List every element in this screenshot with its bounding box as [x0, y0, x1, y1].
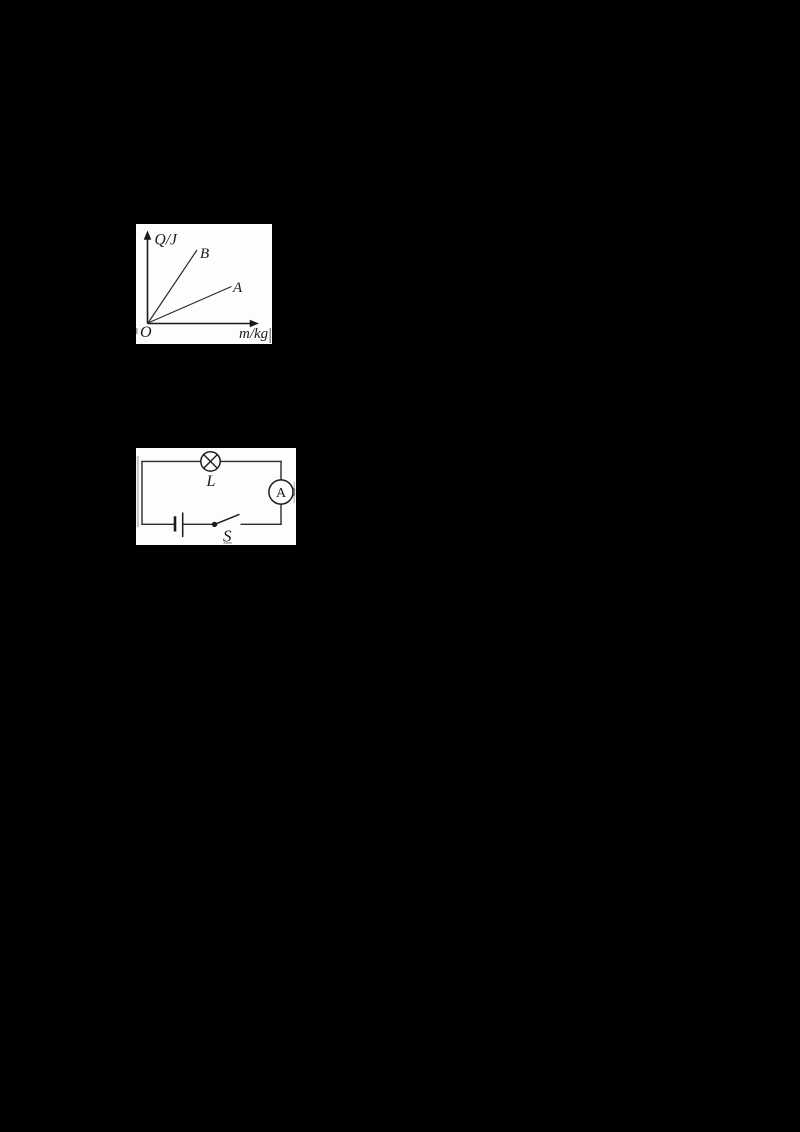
svg-text:m/kg: m/kg — [239, 326, 269, 342]
switch S pivot dot — [212, 522, 217, 527]
battery: negative plate (short thick) — [174, 516, 177, 531]
ammeter A — [269, 480, 293, 504]
grey strip artifact at left edge — [137, 456, 139, 528]
y-axis with arrow — [144, 231, 152, 324]
line B — [148, 250, 197, 323]
grey cursor bar right of m/kg — [270, 328, 272, 343]
svg-text:S: S — [223, 527, 232, 546]
wire: top right segment — [220, 460, 282, 462]
battery: positive plate (long thin) — [182, 513, 184, 538]
circuit panel — [136, 448, 296, 545]
svg-text:L: L — [206, 473, 216, 490]
svg-text:O: O — [140, 324, 152, 341]
wire: switch to right — [241, 523, 282, 525]
artifact: dark blob right of ammeter — [292, 488, 295, 496]
svg-text:Q/J: Q/J — [155, 232, 179, 249]
svg-text:A: A — [232, 280, 243, 296]
wire: bottom left segment — [141, 523, 174, 525]
wire: left vertical — [141, 461, 143, 524]
lamp L (circle with X) — [201, 452, 220, 471]
line A — [148, 287, 232, 324]
svg-text:B: B — [200, 246, 209, 262]
wire: right vertical lower — [280, 504, 282, 525]
grey underline under S — [224, 542, 233, 543]
svg-text:A: A — [276, 486, 287, 501]
wire: top left segment — [141, 460, 201, 462]
switch S lever (open) — [215, 514, 240, 524]
grey tick left of O — [136, 328, 138, 334]
wire: right vertical upper — [280, 461, 282, 480]
x-axis with arrow — [148, 320, 260, 328]
artifact: faint grey line right of ammeter — [294, 482, 295, 504]
graph panel: Q/J vs m/kg — [136, 224, 272, 344]
wire: battery to switch — [184, 523, 215, 525]
